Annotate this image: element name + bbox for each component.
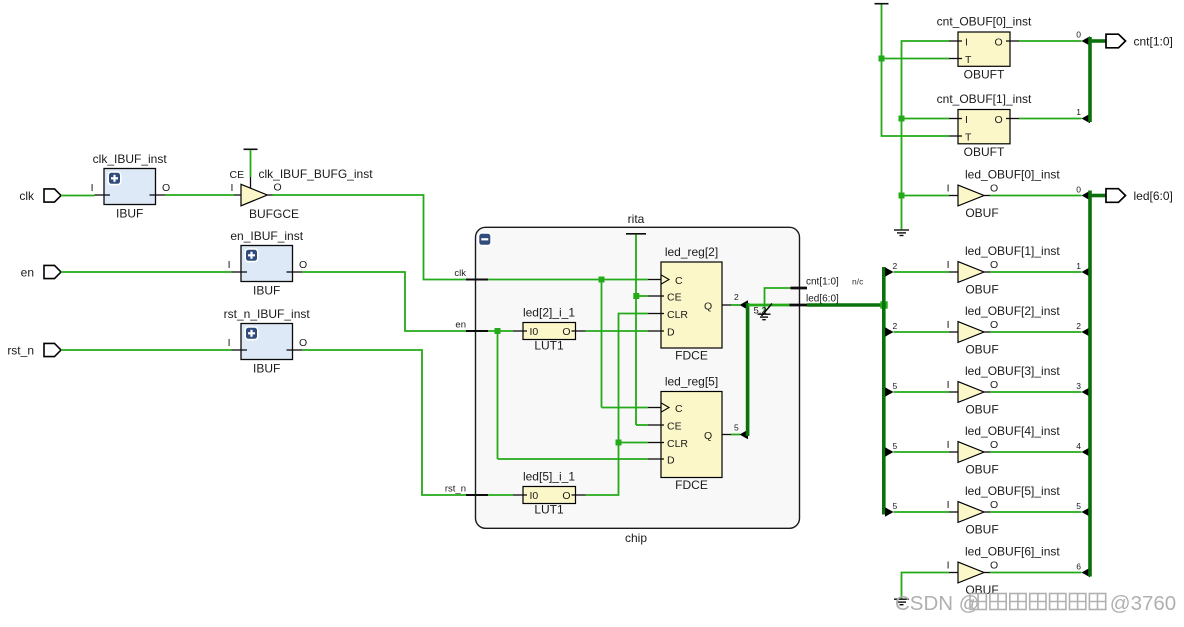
buffer OBUF led_OBUF[4]_inst	[949, 442, 990, 463]
svg-text:Q: Q	[704, 301, 712, 313]
IBUF rst_n_IBUF_inst expand icon	[245, 327, 258, 340]
bus merge arrow led bit 0	[1082, 191, 1091, 200]
svg-text:OBUF: OBUF	[965, 523, 998, 537]
wire vcc net to OBUFT T pins	[882, 5, 950, 137]
bus merge arrow led bit 5	[1082, 507, 1091, 516]
wire rst_n port to rst_n_IBUF I	[61, 349, 232, 351]
svg-text:CLR: CLR	[667, 309, 688, 321]
bus merge arrow led_reg[5] Q	[740, 430, 749, 439]
bus led to port	[1090, 194, 1106, 198]
svg-text:clk: clk	[454, 268, 466, 279]
wire led[2]_i_1 O to led_reg[2] D	[586, 330, 649, 332]
IBUF clk_IBUF_inst expand icon	[108, 172, 121, 185]
wire en net en_IBUF O to chip	[302, 272, 466, 331]
svg-text:I: I	[228, 259, 231, 271]
svg-text:led_OBUF[0]_inst: led_OBUF[0]_inst	[965, 168, 1060, 182]
bus merge arrow cnt bit 0	[1082, 36, 1091, 45]
svg-text:@3760: @3760	[1110, 592, 1176, 615]
supply vcc T-bar inside chip	[626, 233, 646, 235]
IBUF en_IBUF_inst expand icon	[245, 249, 258, 262]
svg-text:CE: CE	[667, 421, 682, 433]
bus led OBUF-input vertical	[882, 267, 886, 515]
svg-text:0: 0	[1076, 30, 1081, 40]
ground symbol bottom	[894, 599, 909, 605]
svg-text:2: 2	[1076, 321, 1081, 331]
wire clk net to led_reg[2] C	[488, 279, 648, 281]
wire cnt_OBUF[1] O to cnt bus	[1019, 118, 1082, 120]
bus merge arrow led bit 4	[1082, 447, 1091, 456]
svg-text:FDCE: FDCE	[675, 349, 708, 363]
svg-text:0: 0	[1076, 184, 1081, 194]
wire en branch vertical	[497, 331, 499, 459]
junction vcc to cnt_OBUF[0] T	[879, 56, 885, 62]
svg-text:OBUF: OBUF	[965, 463, 998, 477]
wire gnd to cnt_OBUF[1] I	[902, 118, 950, 120]
wire clk port to clk_IBUF I	[61, 195, 95, 197]
bus merge arrow led_reg[2] Q	[740, 300, 749, 309]
svg-text:1: 1	[1076, 261, 1081, 271]
svg-text:led[6:0]: led[6:0]	[1134, 189, 1173, 203]
wire CLR branch to led_reg[5] CLR	[619, 442, 649, 444]
svg-text:n/c: n/c	[852, 277, 864, 287]
svg-text:IBUF: IBUF	[253, 284, 280, 298]
svg-text:T: T	[965, 54, 972, 66]
svg-text:O: O	[990, 439, 998, 451]
svg-text:OBUF: OBUF	[965, 283, 998, 297]
svg-text:I0: I0	[530, 326, 539, 338]
svg-text:led_OBUF[4]_inst: led_OBUF[4]_inst	[965, 424, 1060, 438]
wire led_OBUF[3] O to led bus	[990, 391, 1082, 393]
bus merge arrow cnt bit 1	[1082, 114, 1091, 123]
wire rst_n net rst_n_IBUF O to chip	[302, 350, 466, 495]
svg-text:O: O	[562, 326, 570, 338]
junction CLR net branch	[616, 440, 622, 446]
hierarchical block chip / rita	[476, 227, 800, 528]
junction clk net branch	[599, 277, 605, 283]
IBUF rst_n_IBUF_inst	[232, 324, 303, 360]
bus led[6:0] chip pin to OBUF input bus	[807, 303, 884, 307]
svg-text:O: O	[990, 259, 998, 271]
junction en net branch	[495, 328, 501, 334]
wire gnd net vertical	[902, 41, 950, 229]
svg-text:D: D	[667, 327, 675, 339]
svg-text:I: I	[965, 114, 968, 126]
svg-text:I: I	[947, 259, 950, 271]
svg-text:led_OBUF[1]_inst: led_OBUF[1]_inst	[965, 244, 1060, 258]
svg-text:OBUF: OBUF	[965, 206, 998, 220]
svg-text:led_OBUF[3]_inst: led_OBUF[3]_inst	[965, 364, 1060, 378]
svg-text:2: 2	[893, 261, 898, 271]
svg-text:rita: rita	[628, 212, 645, 226]
buffer OBUF led_OBUF[5]_inst	[949, 502, 990, 523]
bus cnt to port	[1090, 39, 1106, 43]
svg-text:C: C	[675, 275, 683, 287]
buffer BUFGCE clk_IBUF_BUFG_inst	[241, 184, 267, 206]
svg-text:CSDN @: CSDN @	[895, 592, 980, 615]
svg-text:I0: I0	[530, 490, 539, 502]
svg-text:I: I	[91, 182, 94, 194]
wire clk branch vertical	[601, 280, 603, 408]
flip-flop FDCE led_reg[2]	[648, 262, 731, 348]
svg-text:FDCE: FDCE	[675, 478, 708, 492]
svg-text:O: O	[995, 114, 1003, 126]
svg-text:I: I	[947, 183, 950, 195]
output port led[6:0]	[1106, 189, 1173, 203]
bus cnt vertical	[1088, 37, 1092, 122]
tristate buffer OBUFT cnt_OBUF[1]_inst	[949, 110, 1019, 144]
svg-text:1: 1	[1076, 107, 1081, 117]
LUT1 led[5]_i_1	[513, 487, 586, 504]
svg-text:I: I	[947, 499, 950, 511]
svg-text:cnt[1:0]: cnt[1:0]	[806, 277, 839, 288]
svg-text:led[2]_i_1: led[2]_i_1	[523, 306, 575, 320]
wire en net to LUT1 led[2]_i_1 I0	[488, 330, 513, 332]
svg-text:2: 2	[893, 321, 898, 331]
bus tap arrow led bit in row 3	[885, 387, 894, 396]
wire vcc net vertical inside chip	[635, 235, 637, 426]
svg-text:cnt_OBUF[0]_inst: cnt_OBUF[0]_inst	[937, 15, 1032, 29]
buffer OBUF led_OBUF[3]_inst	[949, 382, 990, 403]
bus merge arrow led bit 6	[1082, 568, 1091, 577]
slash over dangling bus label	[762, 304, 773, 317]
svg-text:OBUF: OBUF	[965, 403, 998, 417]
svg-text:led_reg[5]: led_reg[5]	[665, 375, 718, 389]
bus merge arrow led bit 1	[1082, 267, 1091, 276]
svg-text:6: 6	[1076, 561, 1081, 571]
wire led[5]_i_1 O to CLR nets	[586, 314, 649, 496]
buffer OBUF led_OBUF[2]_inst	[949, 322, 990, 343]
svg-text:5: 5	[893, 441, 898, 451]
supply vcc T-bar top right	[875, 3, 889, 5]
svg-text:D: D	[667, 455, 675, 467]
wire gnd to led_OBUF[6] I	[902, 573, 950, 599]
wire led bus tap to led_OBUF[3] I	[894, 391, 950, 393]
wire vcc to led_reg[2] CE	[636, 295, 648, 297]
svg-text:O: O	[990, 379, 998, 391]
junction led bus	[880, 301, 887, 308]
input port clk	[19, 189, 61, 203]
svg-text:5: 5	[1076, 501, 1081, 511]
svg-text:I: I	[947, 319, 950, 331]
svg-text:T: T	[965, 132, 972, 144]
wire cnt_OBUF[0] O to cnt bus	[1019, 40, 1082, 42]
svg-text:I: I	[947, 379, 950, 391]
ground symbol right column	[894, 230, 909, 236]
svg-text:rst_n_IBUF_inst: rst_n_IBUF_inst	[224, 307, 311, 321]
chip pin rst_n stub	[466, 494, 488, 496]
svg-text:O: O	[990, 499, 998, 511]
input port en	[21, 265, 61, 279]
BUFGCE I pin stub	[234, 194, 241, 196]
svg-text:LUT1: LUT1	[534, 503, 564, 517]
wire vcc to led_reg[5] CE	[636, 424, 648, 426]
ground symbol inside chip	[758, 314, 771, 320]
svg-text:LUT1: LUT1	[534, 339, 564, 353]
junction gnd to cnt_OBUF[1] I	[899, 116, 905, 122]
svg-text:clk_IBUF_inst: clk_IBUF_inst	[93, 152, 168, 166]
wire rst_n net to LUT1 led[5]_i_1 I0	[488, 494, 513, 496]
wire gnd to led_OBUF[0] I	[902, 195, 950, 197]
wire led_OBUF[5] O to led bus	[990, 511, 1082, 513]
wire cnt net inside chip	[765, 288, 791, 314]
chip pin en stub	[466, 330, 488, 332]
svg-text:C: C	[675, 403, 683, 415]
svg-text:O: O	[995, 37, 1003, 49]
svg-text:3: 3	[1076, 381, 1081, 391]
svg-text:O: O	[562, 490, 570, 502]
wire vcc to cnt_OBUF[0] T	[882, 58, 950, 60]
svg-text:led_reg[2]: led_reg[2]	[665, 245, 718, 259]
wire led_OBUF[0] O to led bus	[990, 195, 1082, 197]
wire led bus tap to led_OBUF[1] I	[894, 271, 950, 273]
watermark CSDN	[895, 592, 1176, 615]
buffer OBUF led_OBUF[6]_inst	[949, 562, 990, 583]
svg-text:en_IBUF_inst: en_IBUF_inst	[230, 229, 303, 243]
output port cnt[1:0]	[1106, 34, 1173, 48]
bus merge arrow led bit 2	[1082, 327, 1091, 336]
wire led_OBUF[4] O to led bus	[990, 451, 1082, 453]
svg-text:I: I	[231, 182, 234, 194]
bus tap arrow led bit in row 2	[885, 327, 894, 336]
wire led_reg[5] Q to bus	[731, 434, 740, 436]
svg-text:en: en	[455, 320, 466, 331]
svg-text:I: I	[947, 439, 950, 451]
svg-text:2: 2	[734, 292, 739, 302]
wire vcc to BUFGCE CE	[250, 150, 252, 177]
wire led bus tap to led_OBUF[5] I	[894, 511, 950, 513]
wire en port to en_IBUF I	[61, 271, 232, 273]
svg-text:5: 5	[893, 381, 898, 391]
svg-text:IBUF: IBUF	[116, 207, 143, 221]
svg-text:I: I	[965, 37, 968, 49]
wire led_OBUF[6] O to led bus	[990, 572, 1082, 574]
flip-flop FDCE led_reg[5]	[648, 392, 731, 478]
wire clk branch to led_reg[5] C	[602, 407, 649, 409]
svg-text:CE: CE	[230, 169, 245, 181]
svg-text:led[5]_i_1: led[5]_i_1	[523, 470, 575, 484]
bus tap arrow led bit in row 1	[885, 267, 894, 276]
junction vcc to led_reg[2] CE	[633, 293, 639, 299]
svg-text:OBUF: OBUF	[965, 343, 998, 357]
wire clk net BUFGCE to chip	[273, 195, 467, 280]
svg-text:en: en	[21, 265, 34, 279]
svg-text:O: O	[299, 337, 307, 349]
svg-text:rst_n: rst_n	[445, 484, 466, 495]
svg-text:O: O	[299, 259, 307, 271]
BUFGCE CE pin stub	[250, 177, 252, 189]
wire led bus tap to led_OBUF[4] I	[894, 451, 950, 453]
BUFGCE O pin stub	[267, 194, 272, 196]
svg-text:O: O	[274, 182, 282, 194]
wire led_OBUF[1] O to led bus	[990, 271, 1082, 273]
buffer OBUF led_OBUF[0]_inst	[949, 185, 990, 206]
svg-text:OBUFT: OBUFT	[964, 68, 1005, 82]
junction gnd to led_OBUF[0] I	[899, 193, 905, 199]
svg-text:Q: Q	[704, 430, 712, 442]
wire led bus tap to led_OBUF[2] I	[894, 331, 950, 333]
svg-text:chip: chip	[625, 531, 647, 545]
svg-text:clk_IBUF_BUFG_inst: clk_IBUF_BUFG_inst	[259, 167, 374, 181]
svg-text:4: 4	[1076, 441, 1081, 451]
buffer OBUF led_OBUF[1]_inst	[949, 262, 990, 283]
bus tap arrow led bit in row 5	[885, 507, 894, 516]
svg-text:clk: clk	[19, 189, 35, 203]
bus led vertical right	[1088, 191, 1092, 577]
tristate buffer OBUFT cnt_OBUF[0]_inst	[949, 32, 1019, 66]
svg-text:cnt[1:0]: cnt[1:0]	[1134, 34, 1173, 48]
svg-text:led_OBUF[6]_inst: led_OBUF[6]_inst	[965, 545, 1060, 559]
svg-text:IBUF: IBUF	[253, 362, 280, 376]
svg-text:O: O	[162, 182, 170, 194]
svg-text:rst_n: rst_n	[7, 343, 34, 357]
input port rst_n	[7, 343, 61, 357]
svg-text:led_OBUF[5]_inst: led_OBUF[5]_inst	[965, 484, 1060, 498]
IBUF en_IBUF_inst	[232, 246, 303, 282]
svg-text:BUFGCE: BUFGCE	[249, 207, 299, 221]
wire clk_IBUF O to BUFGCE I	[165, 194, 234, 196]
svg-text:led[6:0]: led[6:0]	[806, 294, 839, 305]
LUT1 led[2]_i_1	[513, 323, 586, 340]
chip pin cnt[1:0] stub	[791, 287, 808, 290]
chip collapse icon	[479, 233, 492, 246]
svg-text:O: O	[990, 560, 998, 572]
bus led internal to chip pin	[748, 304, 790, 307]
svg-text:CLR: CLR	[667, 438, 688, 450]
bus led internal vertical	[746, 303, 750, 436]
svg-text:5: 5	[893, 501, 898, 511]
supply vcc T-bar above BUFGCE CE	[244, 148, 258, 150]
IBUF clk_IBUF_inst	[95, 169, 166, 205]
svg-text:cnt_OBUF[1]_inst: cnt_OBUF[1]_inst	[937, 92, 1032, 106]
svg-text:I: I	[228, 337, 231, 349]
svg-text:OBUFT: OBUFT	[964, 145, 1005, 159]
svg-text:I: I	[947, 560, 950, 572]
wire en branch to led_reg[5] D	[498, 458, 649, 460]
chip pin led[6:0] stub	[789, 304, 807, 307]
svg-text:5: 5	[734, 423, 739, 433]
svg-text:O: O	[990, 183, 998, 195]
svg-text:O: O	[990, 319, 998, 331]
wire led_reg[2] Q to bus	[731, 304, 740, 306]
svg-text:led_OBUF[2]_inst: led_OBUF[2]_inst	[965, 304, 1060, 318]
svg-text:CE: CE	[667, 292, 682, 304]
bus tap arrow led bit in row 4	[885, 447, 894, 456]
chip pin clk stub	[466, 279, 488, 281]
wire led_OBUF[2] O to led bus	[990, 331, 1082, 333]
bus merge arrow led bit 3	[1082, 387, 1091, 396]
